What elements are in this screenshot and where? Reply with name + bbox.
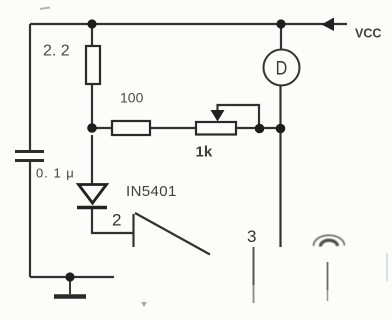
- svg-text:3: 3: [247, 227, 256, 246]
- svg-text:IN5401: IN5401: [126, 183, 177, 200]
- svg-text:2: 2: [112, 211, 121, 230]
- svg-text:2. 2: 2. 2: [43, 43, 70, 60]
- svg-text:D: D: [276, 57, 288, 79]
- svg-text:0. 1 μ: 0. 1 μ: [36, 166, 75, 181]
- svg-text:1k: 1k: [196, 144, 213, 161]
- svg-text:100: 100: [120, 90, 144, 106]
- svg-text:VCC: VCC: [355, 27, 381, 41]
